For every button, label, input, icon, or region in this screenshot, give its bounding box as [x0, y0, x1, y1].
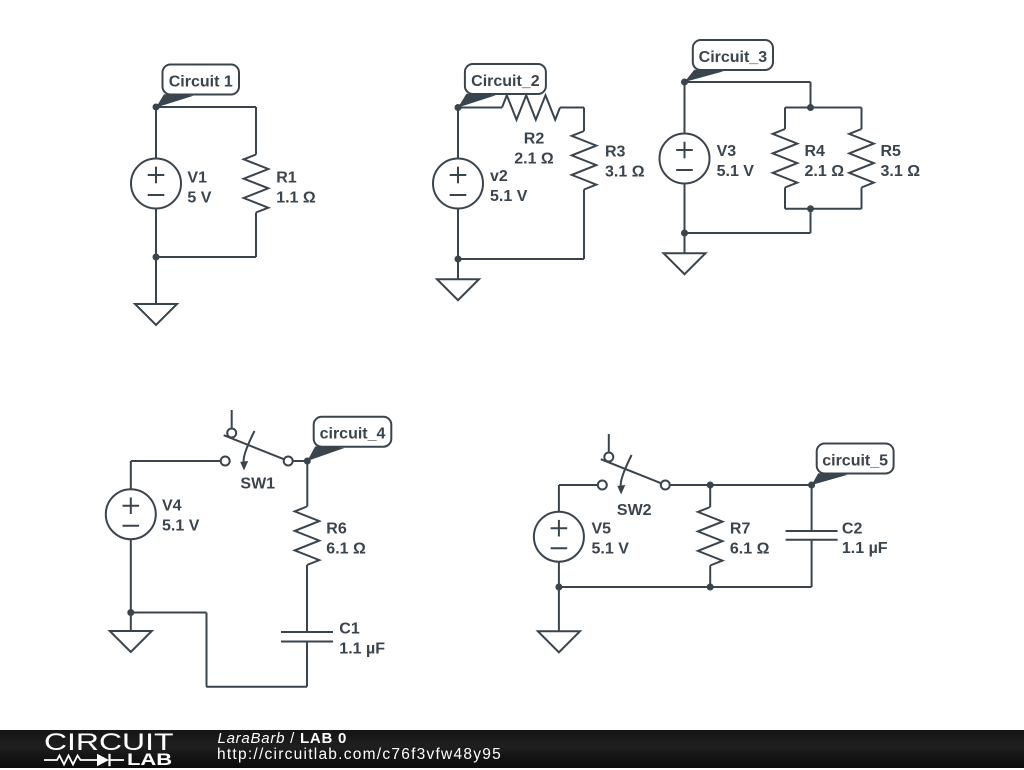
- wire C4 ground stub: [130, 613, 132, 632]
- wire C2 left lower: [457, 209, 459, 259]
- voltage source V5: [534, 512, 584, 562]
- CircuitLab logo wordmark: [44, 729, 173, 757]
- wire C4 left lower: [130, 540, 132, 613]
- svg-text:5.1 V: 5.1 V: [717, 163, 755, 180]
- credit line: [218, 730, 348, 747]
- wire C4 top right: [292, 460, 307, 462]
- resistor R6: [295, 507, 320, 566]
- label v2: [490, 168, 528, 205]
- label R1: [276, 170, 316, 207]
- svg-text:R7: R7: [730, 521, 751, 538]
- node N3 top: [681, 79, 688, 86]
- label C2: [842, 520, 888, 557]
- svg-text:5.1 V: 5.1 V: [162, 517, 200, 534]
- wire C3 left upper: [684, 82, 686, 133]
- switch SW2: [598, 434, 670, 495]
- node N5 callout: [808, 482, 815, 489]
- wire C4 bottom riser: [206, 613, 208, 687]
- svg-text:3.1 Ω: 3.1 Ω: [881, 163, 921, 180]
- label SW2: [617, 502, 652, 519]
- voltage source V4: [106, 489, 156, 539]
- wire C3 R4 stub bot: [784, 188, 786, 209]
- svg-text:1.1 µF: 1.1 µF: [842, 540, 888, 557]
- wire C3 lower bar: [785, 208, 862, 210]
- label R2: [514, 131, 554, 168]
- wire C5 bottom: [559, 586, 812, 588]
- wire C2 right lower: [583, 190, 585, 260]
- wire C3 bottom drop: [810, 209, 812, 233]
- wire C4 top left: [131, 460, 221, 462]
- wire C2 right upper: [583, 108, 585, 132]
- node N5 R7 top: [707, 482, 714, 489]
- label R3: [605, 144, 645, 181]
- wire C1 right lower: [255, 213, 257, 258]
- wire C5 R7 stub top: [709, 485, 711, 507]
- svg-text:SW1: SW1: [240, 475, 275, 492]
- label V1: [187, 170, 211, 207]
- switch SW1: [221, 410, 293, 471]
- wire C4 bottom left: [131, 612, 207, 614]
- wire C1 left upper: [155, 107, 157, 158]
- wire C2 top left: [458, 107, 502, 109]
- svg-text:R6: R6: [326, 520, 347, 537]
- svg-text:R5: R5: [881, 143, 902, 160]
- wire C2 top right: [560, 107, 584, 109]
- ground G3: [664, 253, 706, 274]
- node label callout circuit_5: [812, 444, 894, 486]
- svg-text:3.1 Ω: 3.1 Ω: [605, 163, 645, 180]
- svg-text:V5: V5: [592, 521, 612, 538]
- label V3: [717, 143, 755, 180]
- label SW1: [240, 475, 275, 492]
- node label callout Circuit_2: [458, 64, 546, 108]
- node N2 bottom: [455, 256, 462, 263]
- node N3 upper junction: [807, 104, 814, 111]
- wire C3 upper bar: [785, 107, 862, 109]
- wire C3 R4 stub top: [784, 108, 786, 130]
- svg-text:5.1 V: 5.1 V: [490, 188, 528, 205]
- footer bar: [0, 730, 1024, 769]
- svg-text:C1: C1: [339, 621, 360, 638]
- svg-text:Circuit_2: Circuit_2: [471, 73, 540, 90]
- wire C3 ground stub: [684, 233, 686, 253]
- ground G2: [437, 279, 479, 300]
- wire C5 ground stub: [558, 587, 560, 631]
- wire C1 right upper: [255, 107, 257, 155]
- node N2 top: [455, 104, 462, 111]
- capacitor C1: [281, 632, 333, 642]
- svg-text:Circuit 1: Circuit 1: [169, 74, 233, 91]
- wire C3 left lower: [684, 184, 686, 233]
- node N3 lower junction: [807, 205, 814, 212]
- svg-text:2.1 Ω: 2.1 Ω: [514, 150, 554, 167]
- node label callout Circuit_3: [685, 40, 774, 82]
- capacitor C2: [786, 531, 838, 540]
- resistor R7: [698, 507, 723, 566]
- voltage source v2: [433, 159, 483, 209]
- label R7: [730, 521, 770, 558]
- svg-text:R2: R2: [524, 131, 545, 148]
- svg-text:V4: V4: [162, 498, 182, 515]
- svg-text:C2: C2: [842, 520, 863, 537]
- svg-text:2.1 Ω: 2.1 Ω: [805, 163, 845, 180]
- svg-text:circuit_4: circuit_4: [320, 426, 386, 443]
- node label callout Circuit 1: [156, 65, 239, 108]
- label R5: [881, 143, 921, 180]
- wire C4 left upper: [130, 461, 132, 489]
- svg-text:R4: R4: [805, 143, 826, 160]
- node label callout circuit_4: [307, 417, 391, 461]
- svg-text:1.1 µF: 1.1 µF: [339, 641, 385, 658]
- wire C5 left upper: [558, 485, 560, 512]
- wire C1 bottom: [156, 256, 256, 258]
- label V4: [162, 498, 200, 535]
- voltage source V1: [131, 159, 181, 209]
- ground G5: [538, 631, 580, 652]
- ground G4: [110, 631, 152, 652]
- svg-text:V1: V1: [187, 170, 207, 187]
- svg-text:SW2: SW2: [617, 502, 652, 519]
- node N4 switch out: [304, 458, 311, 465]
- wire C4 right drop: [306, 461, 308, 507]
- logo schematic squiggle (resistor + diode): [40, 751, 130, 769]
- wire C5 below C2: [811, 540, 813, 587]
- wire C1 left lower: [155, 209, 157, 257]
- label C1: [339, 621, 385, 658]
- wire C5 top left: [559, 484, 598, 486]
- wire C3 bottom: [685, 232, 811, 234]
- resistor R5: [849, 129, 874, 188]
- label R4: [805, 143, 845, 180]
- svg-text:R1: R1: [276, 170, 297, 187]
- wire C5 C2 drop: [811, 485, 813, 531]
- node N5 bottom left: [555, 584, 562, 591]
- node N1 top: [153, 104, 160, 111]
- wire C5 R7 stub bot: [709, 566, 711, 588]
- wire C5 top right: [670, 484, 812, 486]
- svg-text:V3: V3: [717, 143, 737, 160]
- wire C2 bottom: [458, 258, 584, 260]
- wire C3 top: [685, 81, 811, 83]
- svg-text:5.1 V: 5.1 V: [592, 540, 630, 557]
- wire C3 R5 stub top: [861, 108, 863, 130]
- wire C1 top: [156, 106, 256, 108]
- svg-text:1.1 Ω: 1.1 Ω: [276, 190, 316, 207]
- wire C2 ground stub: [457, 259, 459, 279]
- svg-text:circuit_5: circuit_5: [822, 453, 888, 470]
- resistor R3: [572, 131, 597, 190]
- node N1 bottom: [153, 254, 160, 261]
- node N3 bottom: [681, 230, 688, 237]
- wire C5 left lower: [558, 562, 560, 587]
- wire C1 ground stub: [155, 257, 157, 304]
- wire C4 R6-C1: [306, 565, 308, 632]
- resistor R1: [244, 155, 269, 213]
- wire C4 bottom: [206, 686, 307, 688]
- resistor R4: [773, 129, 798, 188]
- svg-text:6.1 Ω: 6.1 Ω: [326, 540, 366, 557]
- wire C3 R5 stub bot: [861, 188, 863, 209]
- label R6: [326, 520, 366, 557]
- label V5: [592, 521, 630, 558]
- svg-text:v2: v2: [490, 168, 508, 185]
- voltage source V3: [660, 134, 710, 184]
- node N5 R7 bottom: [707, 584, 714, 591]
- svg-text:5 V: 5 V: [187, 190, 211, 207]
- ground G1: [135, 304, 177, 325]
- node N4 bottom: [127, 609, 134, 616]
- svg-text:Circuit_3: Circuit_3: [699, 49, 768, 66]
- svg-text:6.1 Ω: 6.1 Ω: [730, 540, 770, 557]
- wire C3 top drop: [810, 82, 812, 108]
- wire C4 below C1: [306, 642, 308, 687]
- wire C2 left upper: [457, 108, 459, 159]
- share url: [217, 746, 502, 764]
- svg-text:R3: R3: [605, 144, 626, 161]
- resistor R2: [502, 95, 560, 120]
